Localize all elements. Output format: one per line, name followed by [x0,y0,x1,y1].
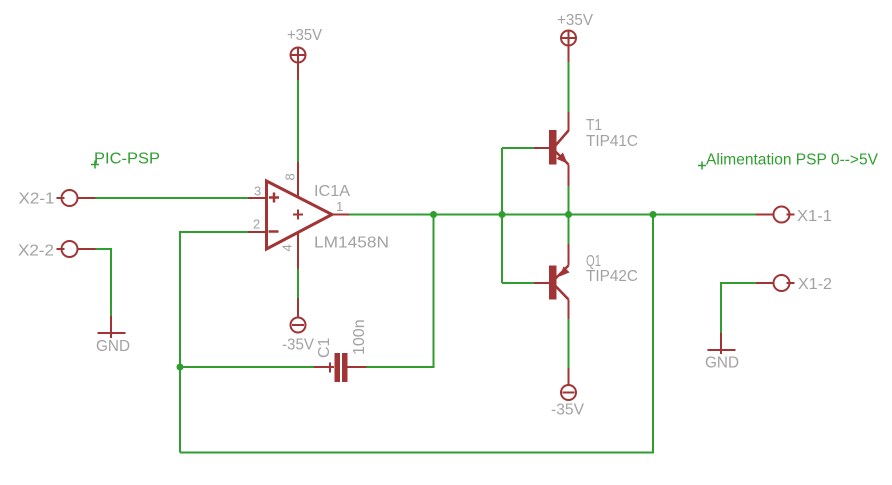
X2-1 pin [78,197,96,199]
svg-text:C1: C1 [316,337,333,358]
net label Alimentation [698,162,706,170]
svg-text:+35V: +35V [287,27,322,44]
junction output/C1 [430,211,437,218]
wire T1 base horizontal [502,147,534,149]
T1 emitter pin vertical [568,165,570,187]
svg-text:TIP41C: TIP41C [586,133,638,150]
wire mid feedback to C1 [180,366,314,368]
supply pin stub [297,298,299,317]
op-amp IC1A [267,181,333,249]
wire bottom feedback run [180,215,653,453]
svg-text:X2-2: X2-2 [18,243,54,260]
svg-text:2: 2 [253,217,260,232]
junction output/bottom feedback [650,211,657,218]
Q1 collector diagonal [555,286,569,300]
wire X1-2 to GND [721,283,756,333]
ground symbol (left) [98,316,126,338]
junction output/base [499,211,506,218]
T1 collector diagonal [556,131,569,146]
C1 origin cross [329,363,331,373]
terminal pad X1-1 [774,207,795,223]
supply symbol -35V (Q1) [561,385,576,400]
svg-text:X2-1: X2-1 [19,191,55,208]
svg-text:LM1458N: LM1458N [314,235,389,252]
svg-text:-35V: -35V [551,402,584,419]
junction feedback node [177,364,184,371]
svg-text:100n: 100n [351,319,368,355]
ground symbol (right) [708,333,736,354]
svg-text:3: 3 [254,184,261,199]
wire output row [349,214,756,216]
svg-text:GND: GND [705,355,739,372]
wire pin V+ supply stub [297,63,299,81]
T1 collector pin vertical [568,112,570,131]
wire X2-1 to op-amp pin 3 [96,197,249,199]
Q1 emitter arrow [560,266,570,276]
wire X2-2 to GND [96,249,112,316]
wire net +35V to op-amp pin 8 [297,80,299,162]
terminal pad X1-2 [774,275,795,291]
svg-text:TIP42C: TIP42C [586,268,638,285]
wire pin 4 to -35V [297,269,299,298]
svg-text:X1-1: X1-1 [797,208,832,225]
X1-1 pin [756,214,774,216]
supply symbol +35V (T1) [561,31,576,46]
T1 emitter diagonal [555,151,569,165]
svg-text:T1: T1 [586,117,602,134]
svg-text:-35V: -35V [282,337,314,354]
transistor T1 base bar [549,130,557,165]
C1 left lead [314,366,334,368]
T1 base pin [534,147,549,149]
Q1 emitter diagonal [555,266,569,280]
wire Q1 collector to -35V [568,319,570,368]
op-amp centre cross [293,210,303,220]
op-amp pin 1 output [332,214,349,216]
net label PIC-PSP [91,161,99,169]
junction output/emitters [565,211,572,218]
C1 right lead [348,366,367,368]
capacitor C1 plates [335,353,348,382]
svg-text:Alimentation PSP 0-->5V: Alimentation PSP 0-->5V [706,152,878,169]
terminal pad X2-2 [57,241,78,257]
X2-2 pin [78,248,96,250]
svg-text:PIC-PSP: PIC-PSP [94,151,160,168]
svg-text:1: 1 [336,199,343,214]
svg-text:IC1A: IC1A [314,183,350,200]
wire T1 emitter to output [568,186,570,215]
Q1 emitter pin vertical [568,244,570,266]
wire C1 to output node [367,215,434,368]
wire pin 2 feedback down [180,232,248,453]
supply symbol +35V (op-amp) [291,48,306,63]
supply symbol -35V (op-amp) [291,318,306,333]
op-amp pin 4 [297,233,299,270]
op-amp pin 8 [297,162,299,197]
wire base bus vertical [501,148,503,283]
wire net +35V to T1 collector [568,62,570,112]
svg-text:GND: GND [96,338,130,355]
supply pin stub [568,368,570,385]
wire Q1 emitter to output [568,215,570,245]
supply pin stub [568,46,570,63]
transistor Q1 base bar [549,266,557,300]
op-amp + input mark [269,193,279,203]
op-amp pin 3 [248,197,266,199]
T1 emitter arrow [557,153,568,164]
svg-text:4: 4 [280,244,295,251]
svg-text:X1-2: X1-2 [798,276,832,293]
svg-text:8: 8 [283,173,298,180]
op-amp - input mark [269,230,279,233]
terminal pad X2-1 [57,190,78,206]
Q1 base pin [534,282,549,284]
X1-2 pin [756,282,774,284]
Q1 collector pin vertical [568,300,570,320]
op-amp pin 2 [248,231,266,233]
wire Q1 base horizontal [502,282,534,284]
svg-text:+35V: +35V [557,12,593,29]
